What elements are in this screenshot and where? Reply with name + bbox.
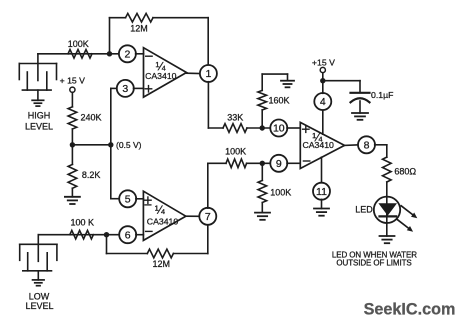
- svg-text:100 K: 100 K: [71, 218, 95, 228]
- svg-text:+ 15 V: + 15 V: [60, 75, 86, 85]
- svg-text:OUTSIDE OF LIMITS: OUTSIDE OF LIMITS: [336, 259, 411, 268]
- svg-text:CA3410: CA3410: [147, 216, 179, 226]
- svg-text:LED: LED: [355, 204, 373, 214]
- svg-text:CA3410: CA3410: [302, 140, 334, 150]
- svg-text:3: 3: [122, 83, 128, 95]
- svg-text:LEVEL: LEVEL: [25, 122, 53, 132]
- svg-text:0.1µF: 0.1µF: [371, 90, 393, 100]
- svg-text:7: 7: [205, 211, 211, 223]
- svg-text:5: 5: [125, 194, 131, 206]
- svg-text:CA3410: CA3410: [145, 71, 177, 81]
- svg-text:LEVEL: LEVEL: [25, 301, 53, 311]
- svg-text:12M: 12M: [152, 259, 170, 269]
- svg-text:(0.5 V): (0.5 V): [116, 140, 142, 150]
- svg-text:11: 11: [316, 186, 327, 198]
- svg-text:9: 9: [276, 158, 282, 170]
- svg-text:4: 4: [320, 96, 326, 108]
- svg-text:160K: 160K: [269, 96, 290, 106]
- svg-text:12M: 12M: [130, 24, 148, 34]
- svg-text:100K: 100K: [225, 146, 246, 156]
- svg-text:10: 10: [273, 123, 285, 135]
- svg-text:100K: 100K: [270, 187, 291, 197]
- svg-text:1: 1: [205, 68, 211, 80]
- svg-text:+15 V: +15 V: [312, 58, 335, 68]
- svg-text:2: 2: [124, 49, 130, 61]
- svg-text:¼: ¼: [155, 203, 165, 217]
- svg-text:HIGH: HIGH: [28, 111, 51, 121]
- svg-text:680Ω: 680Ω: [394, 166, 416, 176]
- svg-text:8: 8: [364, 140, 370, 152]
- svg-text:100K: 100K: [68, 39, 89, 49]
- svg-text:SeekIC.com: SeekIC.com: [364, 301, 456, 319]
- svg-text:240K: 240K: [81, 112, 102, 122]
- svg-text:33K: 33K: [227, 112, 243, 122]
- svg-text:6: 6: [125, 229, 131, 241]
- svg-text:8.2K: 8.2K: [82, 170, 101, 180]
